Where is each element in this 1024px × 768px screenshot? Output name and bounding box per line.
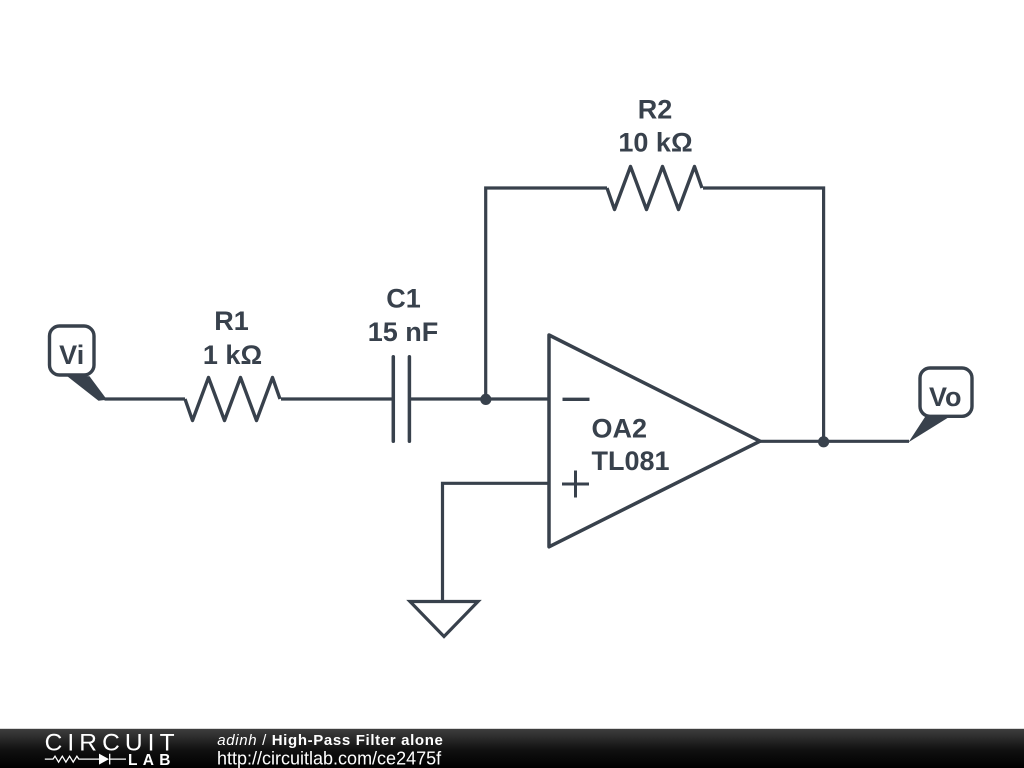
svg-text:adinh / High-Pass Filter alone: adinh / High-Pass Filter alone xyxy=(217,732,443,749)
svg-text:Vi: Vi xyxy=(59,340,84,370)
svg-text:1 kΩ: 1 kΩ xyxy=(203,340,262,370)
svg-text:15 nF: 15 nF xyxy=(368,317,439,347)
svg-text:TL081: TL081 xyxy=(592,446,670,476)
svg-text:Vo: Vo xyxy=(929,382,962,412)
svg-text:OA2: OA2 xyxy=(592,413,648,443)
svg-text:LAB: LAB xyxy=(128,752,176,768)
svg-text:R1: R1 xyxy=(214,306,249,336)
svg-text:C1: C1 xyxy=(386,284,421,314)
svg-text:http://circuitlab.com/ce2475f: http://circuitlab.com/ce2475f xyxy=(217,748,442,768)
svg-text:10 kΩ: 10 kΩ xyxy=(618,128,692,158)
svg-text:R2: R2 xyxy=(638,95,673,125)
